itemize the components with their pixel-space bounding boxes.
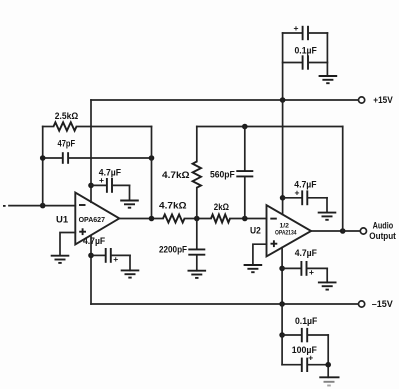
wire U1 noninverting to ground	[60, 233, 75, 256]
ground 2200pF	[188, 271, 207, 278]
resistor 2k series	[211, 202, 230, 222]
wire U2 output	[311, 230, 360, 232]
svg-text:47pF: 47pF	[58, 139, 76, 149]
svg-text:560pF: 560pF	[210, 170, 235, 180]
node U2 inverting input	[242, 216, 248, 222]
resistor 4.7k series	[159, 201, 187, 223]
node T-filter mid	[194, 216, 200, 222]
ground U2 lower bypass	[318, 282, 337, 289]
capacitor 4.7uF (U1 upper bypass)	[91, 167, 130, 200]
wire -15V to bottom bypass	[281, 304, 283, 335]
ground U2 + input	[244, 265, 263, 272]
node -15V rail / U2 supply tap	[279, 301, 285, 307]
op-amp U2 1/2 OPA2134	[267, 205, 312, 256]
node feedback/output	[149, 216, 155, 222]
resistor 4.7k feedback vertical	[162, 127, 201, 219]
node feedback 560pF tap	[242, 124, 248, 130]
wire feedback right vertical	[342, 127, 344, 232]
wire between series resistors	[185, 218, 212, 220]
wire -15V rail	[91, 303, 358, 305]
svg-text:+: +	[309, 267, 314, 277]
node 47pF right	[149, 155, 155, 161]
svg-text:Audio: Audio	[373, 221, 394, 231]
resistor 2.5k	[43, 111, 152, 131]
svg-text:0.1µF: 0.1µF	[295, 316, 318, 326]
svg-text:1/2: 1/2	[280, 223, 290, 230]
terminal +15V	[359, 97, 365, 103]
svg-text:+: +	[294, 23, 299, 33]
capacitor 4.7uF (U2 upper bypass)	[283, 179, 327, 212]
capacitor 4.7uF (U2 lower bypass)	[282, 248, 327, 282]
svg-text:100µF: 100µF	[292, 345, 317, 355]
svg-text:4.7µF: 4.7µF	[83, 236, 106, 246]
wire U1 V-	[90, 236, 92, 304]
ground bottom bypass	[319, 377, 339, 385]
svg-text:–15V: –15V	[372, 299, 394, 309]
wire top bypass right vertical	[326, 33, 328, 76]
svg-text:+: +	[113, 254, 118, 264]
wire +15V rail	[91, 99, 358, 101]
node output/feedback	[340, 228, 346, 234]
wire feedback left vertical	[42, 127, 44, 206]
node U2 V- bypass tap	[279, 266, 285, 272]
node input dot (left margin)	[3, 205, 6, 207]
wire U2 V-	[281, 248, 283, 304]
ground top bypass	[319, 76, 338, 83]
wire U2 feedback top row	[197, 126, 343, 128]
wire U2 V+	[282, 100, 284, 214]
capacitor 0.1uF (top bypass, lower)	[283, 46, 328, 70]
svg-text:2.5kΩ: 2.5kΩ	[55, 111, 78, 121]
capacitor 560pF	[210, 127, 253, 219]
capacitor 4.7uF (U1 lower bypass)	[83, 236, 130, 271]
svg-text:4.7µF: 4.7µF	[294, 179, 317, 189]
svg-text:OPA2134: OPA2134	[275, 230, 297, 237]
terminal Audio Output	[360, 228, 366, 234]
svg-text:U2: U2	[250, 225, 261, 236]
node 47pF left	[40, 155, 46, 161]
ground U2 upper bypass	[318, 213, 337, 220]
op-amp U1 OPA627	[75, 193, 119, 245]
wire U1 output segment	[119, 218, 163, 220]
wire U1 V+	[90, 100, 92, 202]
svg-text:2200pF: 2200pF	[159, 244, 187, 254]
node U2 V+ bypass tap	[280, 195, 286, 201]
svg-text:4.7µF: 4.7µF	[295, 248, 318, 258]
ground U1 lower bypass	[121, 270, 140, 277]
node U1 V- bypass tap	[88, 253, 94, 259]
node 100uF right	[325, 362, 331, 368]
svg-text:2kΩ: 2kΩ	[214, 202, 229, 212]
capacitor 2200pF	[159, 219, 205, 271]
wire 2k to U2	[230, 218, 267, 220]
node input / feedback junction	[40, 203, 46, 209]
svg-text:OPA627: OPA627	[79, 215, 105, 224]
wire top bypass left vertical	[282, 33, 284, 100]
svg-text:+15V: +15V	[373, 95, 393, 105]
node at +15V rail / U2 supply tap	[280, 97, 286, 103]
wire bottom bypass right vertical	[327, 335, 329, 377]
ground U1 + input	[51, 256, 70, 263]
capacitor 100uF polarized (bottom bypass, lower)	[282, 335, 328, 372]
wire input	[9, 205, 75, 207]
capacitor 0.1uF (bottom bypass, upper)	[282, 316, 328, 342]
svg-text:U1: U1	[56, 214, 69, 225]
ground U1 upper bypass	[120, 201, 139, 208]
node bottom bypass top-left	[279, 332, 285, 338]
capacitor C_bp1 polarized (top bypass, upper)	[283, 23, 328, 40]
capacitor 47pF	[43, 139, 152, 164]
terminal -15V	[359, 301, 365, 307]
svg-text:4.7µF: 4.7µF	[99, 167, 122, 177]
wire U2 noninverting to ground	[253, 244, 267, 265]
svg-text:0.1µF: 0.1µF	[295, 46, 318, 56]
wire feedback right vertical	[151, 127, 153, 219]
svg-text:Output: Output	[369, 231, 396, 241]
svg-text:4.7kΩ: 4.7kΩ	[159, 201, 187, 211]
svg-text:4.7kΩ: 4.7kΩ	[162, 170, 190, 180]
node U1 V+ bypass tap	[88, 183, 94, 189]
